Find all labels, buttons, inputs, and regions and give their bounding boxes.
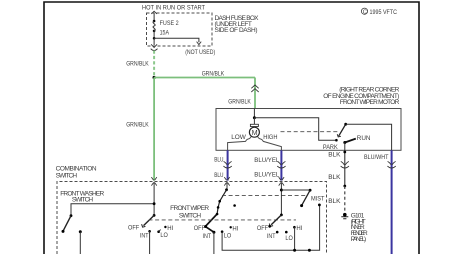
chevron at fuse box top — [151, 11, 157, 14]
svg-text:BLK: BLK — [328, 198, 341, 205]
fuse F2 15A element — [153, 20, 156, 23]
dash fuse box (dashed) — [147, 13, 213, 46]
wire fuse exit — [153, 38, 155, 45]
wire run stub to box bottom — [344, 143, 346, 151]
contact HI pole D and wire to bus — [293, 226, 296, 229]
node park contact — [335, 139, 338, 142]
wiper switch arm B — [144, 215, 155, 225]
node pole D junction — [280, 189, 283, 192]
wire BLK dashed to ground — [344, 186, 346, 212]
svg-text:SWITCH: SWITCH — [56, 172, 78, 179]
svg-text:INT: INT — [140, 232, 149, 239]
contact LO pole B — [157, 230, 160, 233]
wire fuse to junction — [153, 31, 155, 38]
front wiper motor box — [216, 109, 401, 151]
label DASH FUSE BOX (UNDER LEFT SIDE OF DASH) — [215, 15, 260, 34]
node bus junction 2 — [308, 249, 311, 252]
connector on BLK — [341, 161, 349, 168]
svg-text:GRN/BLK: GRN/BLK — [228, 98, 251, 105]
motor M brush — [250, 124, 258, 126]
contact HI pole B — [164, 226, 166, 228]
svg-text:HOT IN RUN OR START: HOT IN RUN OR START — [142, 5, 205, 12]
contact HI pole C — [230, 226, 232, 228]
svg-text:BLK: BLK — [328, 152, 341, 159]
node washer pivot — [70, 214, 73, 217]
node bus junction 1 — [293, 249, 296, 252]
motor windings high lead — [258, 136, 282, 150]
node run stub base — [343, 141, 346, 144]
ground G101 — [343, 213, 347, 217]
wire GRN/BLK drop to motor — [254, 78, 256, 109]
motor windings low lead — [228, 136, 252, 150]
node BLK junction — [343, 185, 346, 188]
wire INT pole C down — [213, 232, 215, 254]
copyright 1995 VFTC — [361, 8, 397, 16]
connector green wire into switch — [151, 177, 156, 186]
wire GRN/BLK horizontal run — [154, 77, 255, 79]
washer switch arm — [63, 216, 71, 232]
svg-text:HI: HI — [296, 225, 302, 232]
label (RIGHT REAR CORNER OF ENGINE COMPARTMENT) FRONT WIPER MOTOR — [323, 87, 399, 106]
arrow not-used terminal — [197, 42, 202, 45]
wire washer branch — [71, 204, 154, 216]
svg-text:INT: INT — [267, 233, 276, 240]
svg-text:GRN/BLK: GRN/BLK — [126, 122, 149, 129]
svg-text:HI: HI — [232, 226, 238, 233]
svg-text:GRN/BLK: GRN/BLK — [202, 70, 225, 77]
contact LO pole D — [285, 231, 288, 234]
node motor feed junction — [253, 116, 256, 119]
run contact stub — [345, 139, 356, 143]
svg-text:INT: INT — [203, 233, 212, 240]
wire GRN/BLK vertical to combination switch — [153, 78, 155, 181]
connector BLU into switch — [224, 177, 229, 186]
label FRONT WIPER SWITCH — [170, 205, 209, 220]
motor M circle — [249, 127, 259, 137]
wire BLU/YEL below box — [280, 150, 282, 180]
svg-text:LOW: LOW — [231, 134, 247, 141]
svg-text:FRONT WIPER: FRONT WIPER — [170, 205, 209, 212]
wire BLK below box — [344, 150, 346, 186]
node green junction — [153, 76, 156, 79]
contact INT pole C — [212, 231, 215, 234]
svg-text:PARK: PARK — [323, 144, 338, 151]
contact OFF pole D — [268, 225, 271, 228]
connector on BLU/YEL — [277, 161, 285, 168]
svg-text:LO: LO — [160, 232, 168, 239]
wire junction to park switch — [254, 118, 335, 141]
svg-text:OFF: OFF — [257, 225, 268, 232]
contact INT pole D — [276, 231, 279, 234]
wire green entry to motor junction — [253, 109, 255, 118]
node wiper arm B pivot — [153, 214, 156, 217]
svg-text:1995 VFTC: 1995 VFTC — [370, 9, 398, 16]
contact MIST — [318, 204, 321, 207]
wire GRN/BLK dashed segment fuse to junction — [153, 51, 155, 78]
svg-text:GRN/BLK: GRN/BLK — [126, 61, 149, 68]
svg-text:LO: LO — [224, 233, 232, 240]
washer contact and wire down — [79, 230, 82, 233]
MIST switch arm — [309, 189, 312, 192]
contact MIST row pole C — [233, 204, 236, 207]
label FRONT WASHER SWITCH — [60, 191, 104, 204]
svg-text:SWITCH: SWITCH — [179, 213, 201, 220]
svg-text:SIDE OF DASH): SIDE OF DASH) — [215, 27, 258, 34]
svg-text:BLU/YEL: BLU/YEL — [254, 157, 279, 164]
node washer branch junction — [153, 202, 156, 205]
svg-text:OFF: OFF — [194, 225, 205, 232]
svg-text:FRONT WIPER MOTOR: FRONT WIPER MOTOR — [340, 99, 400, 106]
wire green pole down — [153, 182, 155, 215]
svg-text:OFF: OFF — [128, 225, 139, 232]
wire BLU/YEL pole down — [280, 182, 282, 215]
connector on BLU — [223, 161, 231, 168]
wire not-used branch — [154, 38, 199, 42]
node pole C top — [225, 188, 228, 191]
svg-text:HIGH: HIGH — [263, 134, 278, 141]
svg-text:SWITCH: SWITCH — [72, 197, 93, 204]
wire stub into fuse box — [153, 13, 155, 21]
svg-text:MIST: MIST — [311, 196, 325, 203]
connector on BLU/WHT — [387, 161, 395, 168]
node BLK at box — [343, 151, 346, 154]
contact INT pole B — [148, 230, 151, 233]
wire junction to motor brush — [253, 118, 255, 125]
wire to MIST arm — [281, 189, 310, 191]
node fuse output junction — [153, 37, 156, 40]
node park arm pivot — [344, 123, 347, 126]
connector BLU/YEL into switch — [279, 177, 284, 186]
svg-text:LO: LO — [285, 235, 293, 242]
wire INT pole B down — [149, 231, 151, 254]
node pole D pivot — [280, 214, 283, 217]
wire BLU/WHT below box — [391, 150, 393, 254]
svg-text:BLK: BLK — [328, 174, 341, 181]
svg-text:PANEL): PANEL) — [351, 236, 367, 243]
svg-text:FUSE 2: FUSE 2 — [160, 20, 179, 27]
contact LO pole C and wire to bus — [221, 230, 224, 233]
label COMBINATION SWITCH — [56, 166, 97, 180]
svg-text:15A: 15A — [160, 30, 170, 37]
linkage dashes A — [222, 195, 306, 197]
linkage motor to park switch (dashed) — [281, 131, 339, 133]
svg-text:C: C — [363, 9, 367, 15]
linkage dashes B — [149, 219, 297, 221]
svg-text:BLU: BLU — [214, 172, 224, 179]
wire BLU below box — [227, 150, 229, 180]
svg-text:BLU/WHT: BLU/WHT — [364, 154, 389, 161]
combination switch box (dashed) — [57, 182, 327, 254]
svg-text:M: M — [252, 128, 258, 137]
connector on green drop — [251, 85, 258, 92]
wiper switch arm C chain — [217, 190, 226, 214]
wiper switch arm D — [271, 215, 281, 225]
svg-text:BLU: BLU — [214, 157, 224, 164]
svg-text:(NOT USED): (NOT USED) — [185, 49, 215, 56]
svg-text:HI: HI — [167, 225, 173, 232]
park switch arm — [339, 124, 346, 136]
svg-text:BLU/YEL: BLU/YEL — [254, 172, 279, 179]
label G101 (RIGHT INNER FENDER PANEL) — [351, 212, 368, 242]
svg-text:RUN: RUN — [357, 135, 371, 142]
wire BLU pole down — [226, 182, 228, 190]
connector at fuse box bottom — [151, 44, 157, 47]
wire pivot to blu/wht — [346, 124, 392, 150]
